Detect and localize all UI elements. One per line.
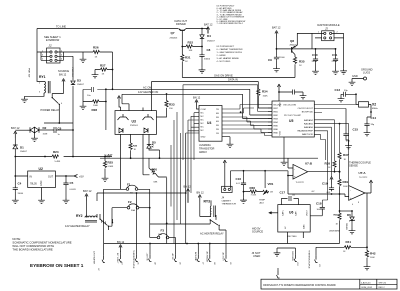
svg-text:THERMOCOUPLE: THERMOCOUPLE — [132, 250, 134, 269]
svg-text:C16: C16 — [236, 177, 242, 181]
svg-text:R25: R25 — [108, 161, 114, 165]
label U4 part — [199, 144, 215, 154]
ground C14 — [364, 128, 371, 136]
power arrow SOURCE BN 12 — [52, 69, 69, 93]
wire J2 left stubs — [37, 50, 50, 60]
relay RY3 contact — [200, 215, 226, 235]
fuse F1 — [104, 183, 150, 238]
fuse F2 — [109, 200, 151, 226]
zener D6 — [345, 211, 355, 230]
capacitor C12 — [288, 90, 303, 95]
svg-text:R27: R27 — [100, 64, 106, 68]
svg-text:7 - FROM EYEBROW PIN 4: 7 - FROM EYEBROW PIN 4 — [217, 23, 244, 25]
svg-text:R42: R42 — [370, 252, 376, 256]
relay RY2 — [65, 214, 97, 228]
resistor R27 — [95, 64, 113, 76]
power arrow at U3 — [117, 96, 120, 108]
svg-text:R39: R39 — [343, 180, 349, 184]
transistor Q8 — [290, 33, 313, 57]
svg-text:RA4/T0CKI: RA4/T0CKI — [302, 133, 313, 136]
svg-text:1N4007: 1N4007 — [77, 84, 85, 86]
svg-text:V+5V: V+5V — [104, 154, 111, 158]
svg-text:BN 12: BN 12 — [117, 240, 125, 244]
diode D3 — [73, 56, 85, 130]
resistor R35 — [295, 60, 305, 78]
capacitor C18 — [310, 202, 322, 216]
svg-text:1 - GAS THERMOCOUPLE: 1 - GAS THERMOCOUPLE — [217, 51, 243, 54]
svg-text:30A: 30A — [131, 209, 135, 212]
svg-text:DAC: DAC — [303, 224, 306, 229]
svg-text:C17: C17 — [280, 190, 286, 194]
diode D2 transorb — [27, 126, 52, 136]
diode D1 — [13, 138, 28, 157]
label THERMOCOUPLE SENSE — [349, 161, 371, 168]
wire GAS VALVE ON line — [182, 74, 295, 78]
svg-text:U5: U5 — [289, 119, 293, 123]
wire F output to RY3 contact — [150, 220, 211, 224]
resistor R26 — [83, 46, 113, 70]
resistor R24 — [53, 150, 61, 163]
svg-text:F3: F3 — [161, 229, 165, 233]
svg-text:-5V: -5V — [311, 191, 315, 193]
connector J2 — [44, 35, 61, 63]
svg-text:COM: COM — [201, 109, 206, 111]
svg-text:R36: R36 — [250, 186, 256, 190]
svg-text:INT LIGHT: INT LIGHT — [116, 253, 118, 264]
svg-text:BAT 12: BAT 12 — [11, 126, 20, 130]
svg-text:22000: 22000 — [332, 61, 338, 63]
pin J9b ac out — [222, 230, 232, 265]
power arrow BN 12 at U4 — [193, 96, 201, 109]
svg-text:AC HEATER RELAY: AC HEATER RELAY — [200, 231, 224, 235]
wire +5V mid rail — [100, 154, 318, 159]
svg-text:LM2936HM: LM2936HM — [329, 231, 340, 233]
label HID 5V SOURCE — [252, 227, 263, 234]
resistor R37 — [339, 153, 349, 173]
svg-text:R34: R34 — [262, 90, 268, 94]
ground C15 — [345, 144, 352, 149]
svg-text:R38: R38 — [325, 162, 331, 166]
svg-text:R26: R26 — [93, 46, 99, 50]
svg-text:C4: C4 — [18, 182, 22, 186]
capacitor C5 — [65, 175, 76, 191]
op-amp U7A — [349, 171, 371, 248]
svg-text:R31: R31 — [185, 56, 191, 60]
svg-text:C11: C11 — [332, 53, 338, 57]
svg-text:GND: GND — [201, 137, 206, 139]
resistor R34 — [258, 86, 272, 108]
optocoupler U3 — [115, 82, 156, 190]
pin J8 ac relay — [206, 244, 216, 266]
svg-text:THERMOCOUPLE: THERMOCOUPLE — [308, 250, 310, 269]
resistor R36 — [244, 186, 263, 197]
ground C4 — [12, 191, 19, 203]
connector J9 ignitor module — [312, 23, 344, 41]
svg-text:RY2: RY2 — [76, 214, 83, 218]
svg-text:NC: NC — [201, 116, 205, 118]
svg-text:BN 12: BN 12 — [59, 72, 67, 76]
wire -5V node line — [288, 193, 349, 196]
svg-text:D6: D6 — [347, 213, 351, 217]
resistor R31 — [182, 54, 191, 78]
svg-text:D1: D1 — [20, 145, 24, 149]
wire U7B out node — [339, 171, 341, 173]
note text U5 PORTB — [217, 6, 246, 26]
wire U4 left pins — [186, 113, 199, 203]
svg-text:VSS: VSS — [280, 131, 282, 136]
svg-text:100K: 100K — [93, 105, 99, 107]
note text block — [12, 237, 71, 252]
capacitor C6 — [44, 122, 74, 136]
power arrow BAT 12 right — [272, 26, 281, 49]
svg-text:PS2501: PS2501 — [130, 125, 139, 127]
svg-text:4 - NOT USED: 4 - NOT USED — [217, 61, 231, 63]
svg-text:ZENER: ZENER — [345, 223, 347, 230]
ground R42 — [364, 265, 371, 270]
svg-text:THERMISTOR: THERMISTOR — [222, 203, 237, 205]
pin gas valve small — [277, 268, 279, 271]
resistor R38 — [325, 162, 336, 173]
svg-text:EYEBROW ON SHEET 1: EYEBROW ON SHEET 1 — [30, 263, 84, 268]
svg-text:D4: D4 — [207, 34, 211, 38]
svg-text:R32: R32 — [188, 41, 194, 45]
svg-text:10u: 10u — [317, 209, 320, 211]
pin J7 ac/heat — [194, 243, 204, 265]
power arrow BAT 12 top — [202, 23, 213, 34]
svg-text:BN 12: BN 12 — [193, 96, 201, 100]
svg-text:1N4007: 1N4007 — [207, 41, 215, 43]
wire node to AC ON — [112, 70, 114, 90]
svg-text:BN 12: BN 12 — [197, 191, 205, 195]
ground R25 — [102, 169, 109, 182]
relay RY2 contact — [99, 214, 113, 230]
capacitor C7 — [83, 87, 106, 102]
wire TO LINE top rail — [37, 24, 202, 52]
transistor Q7 — [170, 19, 188, 54]
svg-text:C15: C15 — [353, 128, 359, 132]
svg-text:CAP-: CAP- — [295, 211, 298, 216]
svg-text:D3: D3 — [77, 79, 81, 83]
wire J2 right stubs — [57, 50, 83, 60]
svg-text:AC/HEAT: AC/HEAT — [194, 252, 197, 262]
svg-text:C13: C13 — [335, 88, 341, 92]
ground at R27 — [92, 70, 99, 78]
svg-text:U7:A: U7:A — [359, 171, 367, 175]
svg-text:GROUND: GROUND — [291, 251, 293, 261]
wire +12 rail to R24 — [15, 130, 112, 176]
ground U4 — [222, 137, 233, 148]
pin J10 ground — [277, 248, 298, 266]
ground C9 — [273, 61, 280, 72]
ground D2 — [31, 133, 38, 142]
svg-text:U7:B: U7:B — [305, 162, 313, 166]
svg-text:TEMP: TEMP — [259, 200, 266, 202]
svg-text:RA2/AN2: RA2/AN2 — [304, 119, 314, 122]
ic U4 — [199, 106, 222, 142]
ground C12 — [300, 94, 307, 99]
wire AC sense line — [97, 133, 187, 244]
svg-text:X2: X2 — [372, 103, 376, 107]
svg-text:10u: 10u — [292, 195, 295, 197]
svg-text:RA1/AN1: RA1/AN1 — [304, 123, 314, 126]
svg-text:SENSE: SENSE — [349, 164, 358, 168]
wire 12V HEATER ON line — [122, 90, 272, 119]
svg-text:IN: IN — [30, 176, 33, 179]
power arrow BAT 12 at RY3 — [197, 191, 205, 217]
svg-text:R24: R24 — [53, 150, 59, 154]
power arrow at J4 — [223, 160, 226, 167]
svg-text:0 - CABINET THERMISTER: 0 - CABINET THERMISTER — [217, 48, 244, 51]
trimpot VR1 — [259, 170, 274, 204]
svg-text:RA3/AN3/VREF: RA3/AN3/VREF — [297, 130, 313, 133]
resistor R30 diagonal — [149, 158, 168, 243]
svg-text:10K: 10K — [189, 50, 193, 52]
svg-text:D2: D2 — [43, 126, 47, 130]
svg-text:VOUT: VOUT — [307, 209, 309, 216]
svg-text:-: - — [294, 168, 295, 171]
svg-text:R28: R28 — [92, 108, 98, 112]
ground C5 — [63, 187, 70, 204]
svg-text:PWR RLY: PWR RLY — [71, 68, 73, 78]
diode D4 — [201, 28, 215, 53]
pin J4b +12V in — [146, 244, 157, 266]
svg-text:22000: 22000 — [279, 57, 285, 59]
svg-text:33000: 33000 — [204, 59, 211, 61]
relay RY1 coil — [25, 52, 51, 96]
svg-text:THE BOARD NOMENCLATURE: THE BOARD NOMENCLATURE — [12, 247, 52, 251]
ground at J2 right — [80, 52, 87, 62]
resistor R29b above rail — [131, 146, 138, 159]
resistor R25 — [104, 156, 114, 168]
ground C7 R28 — [80, 102, 87, 110]
svg-text:LUGS: LUGS — [363, 70, 370, 74]
svg-text:Q8: Q8 — [290, 39, 294, 43]
svg-text:LMC7660: LMC7660 — [287, 236, 297, 238]
capacitor C14 — [367, 111, 376, 126]
ic U6 — [269, 205, 311, 244]
svg-text:33000: 33000 — [312, 61, 318, 63]
capacitor C4 — [14, 175, 24, 195]
ground J9 right — [340, 69, 347, 74]
svg-text:GAS ON DRIVE: GAS ON DRIVE — [214, 74, 233, 78]
label J6 not used — [252, 251, 261, 258]
svg-text:PWR SW: PWR SW — [28, 68, 30, 78]
svg-text:U3: U3 — [132, 120, 136, 124]
svg-text:5.49K: 5.49K — [55, 161, 61, 163]
resistor R40 — [334, 194, 353, 244]
ground U5 VSS — [281, 137, 288, 165]
capacitor C9 — [268, 48, 285, 62]
svg-text:+5V: +5V — [79, 174, 84, 178]
svg-text:VDD: VDD — [280, 102, 282, 107]
capacitor C19 — [311, 182, 332, 195]
capacitor C11 — [332, 49, 338, 63]
svg-text:REV C: REV C — [379, 287, 386, 289]
wire bundle horizontal mid — [183, 85, 272, 112]
svg-text:3 - AC HEATER SENSE: 3 - AC HEATER SENSE — [217, 57, 240, 60]
ground D6 — [349, 229, 356, 234]
svg-text:C9: C9 — [268, 58, 272, 62]
svg-text:12V HEATER: 12V HEATER — [93, 251, 96, 265]
svg-text:OSC2/CLKOUT: OSC2/CLKOUT — [298, 108, 314, 110]
ground C10 — [312, 63, 319, 75]
ground mid bottom — [274, 248, 281, 256]
svg-text:IGNITOR MODULE: IGNITOR MODULE — [317, 23, 340, 27]
svg-text:OUT: OUT — [48, 176, 54, 179]
svg-text:RA0/AN0: RA0/AN0 — [304, 126, 314, 129]
relay RY3 — [200, 200, 216, 218]
power arrow +5V U5 — [277, 84, 288, 101]
ground C13 — [338, 97, 345, 102]
svg-text:BAT 12: BAT 12 — [204, 23, 213, 27]
power arrow U7A out — [369, 180, 372, 187]
wire U5 left pins — [268, 105, 272, 133]
wire DATA IN line — [152, 78, 259, 86]
svg-text:1M: 1M — [270, 192, 273, 194]
wire bundle vertical left of U4 — [171, 85, 183, 244]
svg-text:100K: 100K — [263, 95, 269, 97]
svg-text:2-AUG-04: 2-AUG-04 — [361, 281, 371, 284]
svg-text:4MHz: 4MHz — [372, 108, 378, 110]
svg-text:EYEBROW: EYEBROW — [46, 38, 60, 42]
svg-text:AC OUT: AC OUT — [222, 253, 225, 262]
svg-text:NC: NC — [201, 123, 205, 125]
power arrow BAT 12 at RY2 — [83, 189, 92, 214]
svg-text:NC: NC — [201, 113, 205, 115]
svg-text:USED: USED — [253, 254, 260, 258]
svg-text:RY3: RY3 — [204, 200, 211, 204]
relay RY1 contact — [41, 94, 64, 124]
svg-text:C10: C10 — [312, 53, 318, 57]
label BAT 12 left — [11, 126, 27, 138]
ground U2 — [38, 198, 45, 203]
svg-text:78L05: 78L05 — [30, 183, 37, 186]
svg-text:BOM_0592: BOM_0592 — [362, 287, 373, 289]
svg-text:BN 12: BN 12 — [184, 185, 192, 189]
capacitor C16 — [236, 170, 245, 193]
capacitor C15 — [346, 109, 358, 144]
svg-text:-: - — [350, 189, 351, 192]
fuse F3 — [150, 229, 176, 239]
resistor R39 — [340, 172, 349, 194]
svg-text:CABINET: CABINET — [222, 200, 232, 203]
svg-text:+12V IN: +12V IN — [146, 253, 148, 261]
svg-text:ARRAY: ARRAY — [199, 151, 207, 154]
svg-text:100K: 100K — [370, 257, 375, 259]
svg-text:AC ON: AC ON — [143, 85, 151, 89]
svg-text:U2: U2 — [39, 167, 43, 171]
svg-text:U5 PORTA FUNCT: U5 PORTA FUNCT — [217, 45, 235, 48]
svg-text:TLC2272: TLC2272 — [296, 182, 305, 184]
svg-text:BAT 12: BAT 12 — [272, 26, 281, 30]
svg-text:DRIVER: DRIVER — [176, 22, 186, 26]
svg-text:7.15K: 7.15K — [251, 195, 257, 197]
svg-text:VR1: VR1 — [268, 182, 274, 186]
svg-text:15KE: 15KE — [43, 134, 49, 136]
svg-text:POWER RELAY: POWER RELAY — [41, 108, 60, 112]
svg-text:SHT 2/2: SHT 2/2 — [379, 282, 387, 284]
pin J11 thermocouple — [308, 247, 345, 269]
op-amp U7B — [287, 158, 339, 194]
resistor R42 — [367, 247, 376, 264]
svg-text:R35: R35 — [299, 60, 305, 64]
ground C16 — [240, 187, 247, 204]
capacitor C13 — [335, 88, 357, 97]
svg-text:U4: U4 — [207, 121, 211, 125]
svg-text:NC: NC — [201, 130, 205, 132]
capacitor C8 — [204, 48, 211, 61]
svg-text:1u: 1u — [58, 134, 60, 136]
ground RY1 — [21, 96, 28, 102]
svg-text:SOURCE: SOURCE — [252, 230, 263, 234]
svg-text:Q7: Q7 — [171, 31, 175, 35]
capacitor C17 — [280, 190, 299, 204]
svg-text:PIC 16C711-04/P: PIC 16C711-04/P — [284, 115, 302, 117]
svg-text:12V HEATER ON: 12V HEATER ON — [138, 90, 158, 94]
pin J1 12V heater — [93, 189, 104, 271]
resistor R41 — [343, 240, 367, 253]
ic U5 — [272, 101, 314, 137]
title block — [261, 279, 397, 289]
svg-text:NC: NC — [201, 127, 205, 129]
svg-text:NC: NC — [201, 120, 205, 122]
svg-text:GND: GND — [40, 180, 43, 186]
capacitor C10 — [312, 49, 318, 63]
regulator U2 — [15, 167, 68, 198]
diode D5 led — [147, 141, 160, 159]
wire U5 right pins — [314, 105, 356, 206]
svg-text:DINOSAUR P-TT1 DOMETIC REFRIGE: DINOSAUR P-TT1 DOMETIC REFRIGERATOR CONT… — [263, 284, 336, 287]
svg-text:R41: R41 — [346, 240, 352, 244]
svg-text:1.58K: 1.58K — [108, 166, 114, 168]
svg-text:68K: 68K — [154, 182, 158, 184]
svg-text:33000: 33000 — [18, 193, 24, 195]
svg-text:1N4007: 1N4007 — [20, 151, 28, 153]
resistor R28 — [83, 90, 107, 131]
svg-text:ADJ: ADJ — [260, 201, 264, 204]
svg-text:GND: GND — [352, 74, 358, 78]
svg-text:BIOSPVDD: BIOSPVDD — [302, 112, 314, 114]
note text U5 PORTA — [217, 45, 244, 63]
svg-text:0.0033: 0.0033 — [70, 189, 77, 191]
svg-text:F2: F2 — [128, 200, 132, 204]
resistor R33 — [156, 93, 174, 117]
svg-text:C14: C14 — [371, 116, 377, 120]
svg-text:C19: C19 — [322, 182, 328, 186]
power arrow BN 12 mid bottom — [184, 185, 192, 203]
svg-text:100K: 100K — [343, 186, 348, 188]
pin J5 thermocouple — [132, 193, 139, 269]
svg-text:R37: R37 — [343, 153, 349, 157]
svg-text:AC RELAY: AC RELAY — [206, 252, 209, 263]
svg-text:2N4403: 2N4403 — [170, 38, 178, 40]
pin J6 ac in — [171, 238, 181, 266]
resistor R32 — [181, 41, 203, 53]
crystal X2 — [356, 94, 378, 112]
svg-text:C8: C8 — [207, 48, 211, 52]
svg-text:12V HEATER RELAY: 12V HEATER RELAY — [65, 224, 90, 228]
pin J3 int light — [116, 240, 125, 265]
svg-text:TLC2272: TLC2272 — [359, 177, 368, 179]
ground at lug — [349, 80, 356, 85]
wire J9 to rail — [277, 33, 344, 68]
svg-text:RY1: RY1 — [39, 75, 46, 79]
connector J4 cabinet thermistor — [222, 167, 289, 205]
svg-text:C5: C5 — [70, 181, 74, 185]
svg-text:R33: R33 — [169, 103, 175, 107]
svg-text:2 - HIREF: 2 - HIREF — [217, 55, 227, 57]
svg-text:D5: D5 — [152, 141, 156, 145]
